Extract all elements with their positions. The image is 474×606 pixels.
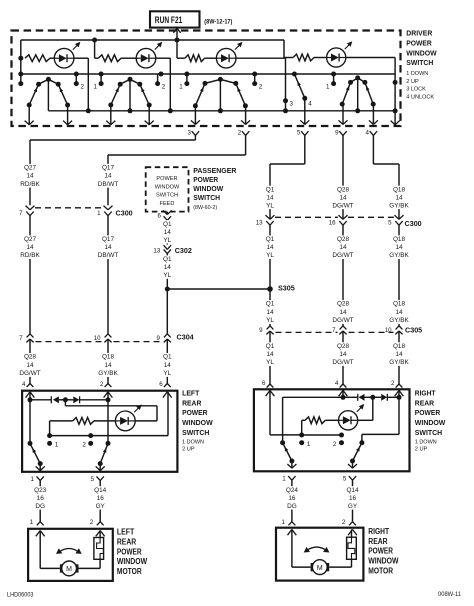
contact 1 right switch: [299, 440, 311, 448]
connector C305: [259, 325, 422, 334]
svg-text:(8W-60-2): (8W-60-2): [193, 205, 217, 211]
svg-text:MOTOR: MOTOR: [368, 566, 393, 575]
left switch blade to output 1: [30, 443, 45, 470]
wire unit1 feed: [18, 40, 23, 86]
passenger power window switch feed box: [146, 167, 189, 211]
svg-text:14: 14: [395, 244, 403, 251]
svg-text:Q27: Q27: [24, 236, 37, 243]
svg-text:14: 14: [104, 362, 112, 369]
label Q17 14 DB/WT upper: [98, 164, 119, 188]
label Q27 14 RD/BK upper: [20, 164, 41, 188]
wire right switch pin4 feed: [341, 390, 346, 399]
svg-text:14: 14: [266, 244, 274, 251]
wire Q18 C300 to C305: [398, 225, 400, 326]
svg-text:2: 2: [100, 381, 104, 388]
diode D2 left switch: [65, 396, 108, 403]
contact 2 stub x76.3: [74, 74, 85, 91]
svg-text:Q1: Q1: [266, 186, 275, 193]
wire LED3 cathode to lock contact: [236, 58, 288, 113]
svg-text:Q24: Q24: [286, 487, 299, 494]
svg-text:1: 1: [179, 84, 183, 91]
lock blade 4 with pin 5 output: [294, 74, 312, 125]
svg-text:2: 2: [90, 519, 94, 526]
svg-text:SWITCH: SWITCH: [156, 193, 178, 199]
svg-text:Q18: Q18: [393, 236, 406, 243]
label Q18 14 GY/BK to right switch: [389, 342, 410, 366]
motor M right rear: [311, 560, 330, 575]
svg-text:DG/WT: DG/WT: [19, 370, 40, 377]
wire right motor feed 1: [292, 529, 311, 567]
svg-text:RD/BK: RD/BK: [20, 181, 40, 188]
switch rocker unit1: [27, 77, 70, 111]
right switch blade to output 5: [348, 443, 362, 469]
contact 2 right switch: [333, 440, 344, 448]
svg-text:RIGHT: RIGHT: [368, 527, 389, 536]
svg-text:POWER: POWER: [406, 38, 432, 47]
svg-text:2 UP: 2 UP: [415, 446, 428, 452]
svg-text:3 LOCK: 3 LOCK: [406, 87, 426, 93]
svg-text:9: 9: [335, 130, 339, 137]
svg-text:REAR: REAR: [368, 537, 387, 546]
svg-text:YL: YL: [163, 370, 171, 377]
svg-text:5: 5: [91, 476, 95, 483]
svg-text:Q18: Q18: [393, 186, 406, 193]
right switch pin 6: [262, 380, 274, 396]
svg-text:WINDOW: WINDOW: [155, 184, 180, 190]
svg-text:13: 13: [153, 248, 160, 255]
wire pin9 to C300-16 (Q28): [342, 135, 344, 219]
label Q28 14 DG/WT to right switch: [332, 342, 353, 366]
driver pin 2: [238, 130, 250, 137]
right rear power window switch box: [254, 389, 410, 471]
switch rocker unit2: [108, 77, 151, 114]
svg-text:PASSENGER: PASSENGER: [193, 166, 237, 175]
svg-text:2: 2: [342, 519, 346, 526]
label Q1 14 YL to right switch: [265, 342, 274, 366]
svg-text:14: 14: [104, 173, 112, 180]
label Q18 14 GY/BK to left switch: [98, 353, 119, 377]
svg-text:Q1: Q1: [266, 301, 275, 308]
resistor unit1: [25, 55, 54, 62]
svg-text:5: 5: [388, 220, 392, 227]
illumination LED unit2: [136, 42, 162, 68]
svg-text:2 UP: 2 UP: [182, 446, 195, 452]
wire passenger feed Q1: [166, 220, 168, 244]
left switch pin 4: [22, 381, 34, 398]
svg-text:LHD06003: LHD06003: [7, 592, 34, 599]
svg-text:Q1: Q1: [163, 354, 172, 361]
left rear power window motor box: [28, 529, 113, 581]
left switch pin 6: [159, 381, 171, 398]
wire Q1 C300 to C305 through S305: [269, 225, 271, 326]
right rear power window motor box: [276, 528, 363, 581]
contact 1 stub x101.1: [93, 74, 103, 91]
svg-text:10: 10: [385, 327, 392, 334]
svg-text:2: 2: [391, 380, 395, 387]
wire Q17 C300 to C304: [107, 216, 109, 334]
wire unit3 feed: [177, 40, 185, 58]
wire right switch pin6 to rail: [270, 390, 302, 435]
svg-text:M: M: [317, 565, 323, 572]
diagram number 008W-11: [438, 591, 462, 598]
label Q14 16 GY left: [94, 486, 107, 510]
svg-text:DB/WT: DB/WT: [98, 181, 119, 188]
svg-text:WINDOW: WINDOW: [117, 557, 148, 566]
svg-text:14: 14: [164, 229, 172, 236]
right switch pin 2: [391, 380, 403, 396]
svg-text:14: 14: [26, 173, 34, 180]
label Q1 14 YL above C302: [163, 220, 172, 244]
svg-text:Q28: Q28: [337, 343, 350, 350]
svg-text:14: 14: [339, 351, 347, 358]
wire unit1 down-arrows: [25, 105, 72, 125]
rotation arrows left motor: [56, 548, 82, 554]
wire pin2 to C300-1 (Q17): [108, 135, 246, 205]
svg-text:WINDOW: WINDOW: [368, 557, 399, 566]
wire C305 to right switch pin 4: [342, 331, 344, 384]
svg-text:DG/WT: DG/WT: [332, 202, 353, 209]
svg-text:REAR: REAR: [415, 398, 435, 407]
svg-text:POWER: POWER: [415, 408, 441, 417]
svg-text:YL: YL: [163, 272, 171, 279]
contact 1 stub x186.9: [179, 74, 189, 91]
svg-text:DG/WT: DG/WT: [332, 317, 353, 324]
connector C302: [153, 245, 191, 255]
driver pin 9: [335, 130, 347, 137]
svg-text:1: 1: [326, 84, 330, 91]
rotation arrows right motor: [304, 547, 330, 553]
svg-text:WINDOW: WINDOW: [415, 418, 446, 427]
wire C302 to splice S305: [165, 254, 170, 334]
svg-text:7: 7: [332, 327, 336, 334]
svg-text:Q17: Q17: [102, 236, 115, 243]
resistor left rear switch: [50, 418, 116, 425]
svg-text:Q14: Q14: [346, 487, 359, 494]
svg-text:SWITCH: SWITCH: [406, 58, 433, 67]
left rear power window switch label: [182, 388, 213, 452]
svg-text:1 DOWN: 1 DOWN: [182, 439, 204, 445]
wire left motor feed 1: [40, 531, 60, 569]
svg-text:14: 14: [26, 244, 34, 251]
contact 1 stub x333.6: [326, 74, 336, 91]
wire driver switch contact bus: [21, 72, 395, 77]
left rear power window switch box: [22, 391, 177, 472]
label Q1 14 YL to left switch: [163, 353, 172, 377]
svg-text:POWER: POWER: [182, 408, 208, 417]
right motor pin 1: [281, 519, 296, 535]
label Q1 14 YL below C302: [163, 255, 172, 279]
wire LED1 cathode to lower bus: [74, 58, 91, 113]
svg-text:LEFT: LEFT: [117, 528, 134, 537]
wire left switch pin2 to pivot: [106, 392, 111, 446]
svg-text:Q28: Q28: [337, 236, 350, 243]
svg-text:14: 14: [164, 362, 172, 369]
wire unit2 down-arrows: [106, 105, 153, 125]
svg-text:6: 6: [158, 213, 162, 220]
svg-text:3: 3: [188, 130, 192, 137]
LED right rear switch: [339, 404, 365, 430]
svg-text:3: 3: [290, 100, 294, 107]
svg-text:7: 7: [19, 210, 23, 217]
svg-text:7: 7: [19, 335, 23, 342]
svg-text:GY/BK: GY/BK: [98, 370, 118, 377]
svg-text:4: 4: [366, 130, 370, 137]
connector C300 left half: [19, 206, 133, 218]
svg-text:14: 14: [395, 309, 403, 316]
contact 2 stub x254.7: [252, 74, 263, 91]
label Q28 14 DG/WT to left switch: [19, 353, 40, 377]
svg-text:SWITCH: SWITCH: [182, 428, 210, 437]
svg-text:POWER: POWER: [156, 176, 177, 182]
svg-text:6: 6: [159, 381, 163, 388]
svg-text:14: 14: [395, 351, 403, 358]
svg-text:4: 4: [22, 381, 26, 388]
svg-text:C302: C302: [175, 246, 192, 255]
svg-text:Q28: Q28: [337, 301, 350, 308]
svg-text:REAR: REAR: [182, 398, 202, 407]
driver power window switch dashed box: [12, 31, 401, 127]
svg-text:YL: YL: [266, 252, 274, 259]
svg-text:16: 16: [37, 495, 45, 502]
svg-text:5: 5: [297, 130, 301, 137]
diagram number LHD06003: [7, 592, 34, 599]
driver pin 4: [366, 130, 378, 137]
svg-text:2: 2: [333, 441, 337, 448]
wire unit4 outputs to border: [339, 104, 378, 124]
label Q27 14 RD/BK lower: [20, 235, 41, 259]
wire left switch contact rail: [50, 433, 168, 438]
left rear power window motor label: [117, 528, 148, 576]
label Q28 14 DG/WT above C300: [332, 186, 353, 210]
wire Q23 16 DG: [39, 481, 41, 522]
label Q24 16 DG: [285, 486, 298, 510]
svg-text:4: 4: [335, 380, 339, 387]
svg-text:SWITCH: SWITCH: [193, 193, 220, 202]
svg-text:POWER: POWER: [368, 547, 393, 556]
wire C304 to left switch pin 4: [29, 339, 31, 384]
diode D1 right switch: [343, 394, 375, 401]
illumination LED unit3: [216, 42, 242, 68]
wire driver switch top bus: [21, 38, 284, 43]
svg-text:DG: DG: [287, 503, 297, 510]
wire RUN F21 feed to driver switch: [173, 28, 180, 42]
left switch output pin 5: [91, 476, 104, 483]
label Q18 14 GY/BK above C300: [389, 186, 410, 210]
left switch output pin 1: [31, 476, 44, 483]
svg-text:GY/BK: GY/BK: [389, 359, 409, 366]
resistor unit3: [185, 55, 217, 62]
svg-text:YL: YL: [266, 202, 274, 209]
svg-text:14: 14: [266, 194, 274, 201]
label Q1 14 YL below S305: [265, 300, 274, 324]
wire Q14 16 GY right: [352, 480, 354, 522]
svg-text:DB/WT: DB/WT: [98, 252, 119, 259]
LED left rear switch: [115, 404, 141, 430]
left switch pin 2: [100, 381, 112, 398]
svg-text:RIGHT: RIGHT: [415, 388, 436, 397]
wire C305 to right switch pin 6: [269, 331, 271, 384]
svg-text:Q1: Q1: [163, 256, 172, 263]
illumination LED unit4: [327, 41, 353, 67]
resistor right rear switch: [302, 417, 339, 424]
wire left motor feed 2: [79, 559, 101, 568]
wire Q27 C300 to C304: [29, 216, 31, 334]
svg-text:Q28: Q28: [24, 354, 37, 361]
label Q1 14 YL above C300: [265, 186, 274, 210]
svg-text:1: 1: [282, 475, 286, 482]
fuse feed RUN F21 box: [150, 11, 200, 27]
label Q28 14 DG/WT below C300: [332, 235, 353, 259]
svg-text:1: 1: [281, 519, 285, 526]
wire resistor elbow to rail: [47, 421, 52, 438]
svg-text:1: 1: [55, 442, 59, 449]
svg-text:1: 1: [30, 519, 34, 526]
svg-text:WINDOW: WINDOW: [182, 418, 213, 427]
illumination LED unit1: [54, 42, 80, 68]
svg-text:DG: DG: [35, 503, 45, 510]
wire pin3 to C300-7 (Q27): [30, 135, 195, 205]
wire Q14 16 GY left: [99, 481, 101, 522]
svg-text:RUN F21: RUN F21: [155, 15, 183, 26]
svg-text:Q1: Q1: [266, 236, 275, 243]
splice S305: [167, 284, 294, 293]
svg-text:1: 1: [31, 476, 35, 483]
wire lower bus corner arrow: [391, 108, 400, 125]
label Q18 14 GY/BK above C305: [389, 300, 410, 324]
wire LED2 cathode to lower bus: [156, 58, 173, 113]
resistor unit4: [293, 54, 327, 61]
right switch blade to output 1: [283, 443, 297, 469]
svg-text:REAR: REAR: [117, 538, 136, 547]
passenger power window switch label: [193, 166, 237, 211]
motor M left rear: [60, 561, 79, 576]
wire driver switch lower bus: [48, 110, 395, 112]
svg-text:FEED: FEED: [160, 201, 175, 207]
label Q17 14 DB/WT lower: [98, 235, 119, 259]
connector C300 right half: [256, 215, 422, 228]
wire Q24 16 DG: [291, 480, 293, 522]
svg-text:5: 5: [343, 475, 347, 482]
svg-text:16: 16: [349, 495, 357, 502]
svg-text:C300: C300: [116, 208, 133, 217]
svg-text:DRIVER: DRIVER: [406, 29, 432, 38]
wire resistor elbow to rail right: [299, 420, 304, 437]
svg-text:Q1: Q1: [266, 343, 275, 350]
svg-text:Q27: Q27: [24, 165, 37, 172]
svg-text:GY/BK: GY/BK: [389, 252, 409, 259]
svg-text:POWER: POWER: [117, 547, 142, 556]
svg-text:M: M: [66, 566, 72, 573]
svg-text:Q28: Q28: [337, 186, 350, 193]
svg-text:YL: YL: [163, 237, 171, 244]
svg-text:Q23: Q23: [34, 487, 47, 494]
label (8W-12-17): [204, 19, 232, 26]
svg-text:16: 16: [288, 495, 296, 502]
right rear power window motor label: [368, 527, 399, 575]
svg-text:Q18: Q18: [102, 354, 115, 361]
label Q18 14 GY/BK below C300: [389, 235, 410, 259]
svg-text:Q18: Q18: [393, 301, 406, 308]
right rear power window switch label: [415, 388, 446, 452]
wire LED4 cathode to contact 2: [346, 58, 398, 111]
label Q28 14 DG/WT above C305: [332, 300, 353, 324]
svg-text:14: 14: [104, 244, 112, 251]
svg-text:Q1: Q1: [163, 221, 172, 228]
svg-text:S305: S305: [278, 284, 295, 293]
svg-text:14: 14: [395, 194, 403, 201]
svg-text:16: 16: [329, 220, 336, 227]
wire unit2 feed: [95, 40, 99, 58]
svg-text:Q17: Q17: [102, 165, 115, 172]
svg-text:1: 1: [97, 210, 101, 217]
label Q14 16 GY right: [346, 486, 359, 510]
svg-text:14: 14: [339, 309, 347, 316]
connector C304: [19, 333, 194, 343]
wire C305 to right switch pin 2: [398, 331, 400, 384]
wire pin4 to C300-5 (Q18): [373, 135, 399, 219]
svg-text:14: 14: [339, 244, 347, 251]
svg-text:SWITCH: SWITCH: [415, 428, 443, 437]
svg-text:2: 2: [81, 84, 85, 91]
svg-text:GY: GY: [96, 503, 106, 510]
driver pin 3: [188, 130, 200, 137]
svg-text:14: 14: [266, 309, 274, 316]
svg-text:16: 16: [97, 495, 105, 502]
wire unit4 feed: [284, 40, 293, 58]
passenger feed pin 6: [158, 210, 172, 220]
svg-text:6: 6: [262, 380, 266, 387]
svg-text:2 UP: 2 UP: [406, 79, 419, 85]
label Q23 16 DG: [34, 486, 47, 510]
wire C304 to left switch pin 6: [166, 339, 168, 384]
diode D1 left switch: [30, 396, 68, 403]
left switch blade to output 5: [96, 443, 108, 470]
svg-text:2: 2: [82, 442, 86, 449]
circuit breaker left motor: [94, 531, 104, 560]
svg-text:WINDOW: WINDOW: [193, 184, 223, 193]
wire left switch pin4 to pivot: [28, 392, 33, 446]
diode D2 right switch: [373, 394, 402, 401]
left motor pin 1: [30, 519, 45, 537]
switch rocker unit4: [340, 75, 376, 113]
svg-text:DG/WT: DG/WT: [332, 252, 353, 259]
svg-text:(8W-12-17): (8W-12-17): [204, 19, 232, 26]
right switch pin 4: [335, 380, 347, 396]
svg-text:14: 14: [26, 362, 34, 369]
svg-text:2: 2: [259, 84, 263, 91]
switch rocker unit3: [193, 77, 248, 113]
svg-text:1: 1: [93, 84, 97, 91]
svg-text:14: 14: [339, 194, 347, 201]
svg-text:1 DOWN: 1 DOWN: [406, 71, 428, 77]
lock contact 3: [290, 100, 294, 107]
wire diode junction to LED loop: [65, 400, 157, 421]
wire pin5 to C300-13 (Q1): [270, 135, 305, 219]
driver pin 5: [297, 130, 309, 137]
svg-text:GY/BK: GY/BK: [389, 202, 409, 209]
svg-text:008W-11: 008W-11: [438, 591, 462, 598]
svg-text:POWER: POWER: [193, 175, 219, 184]
svg-text:WINDOW: WINDOW: [406, 48, 437, 57]
svg-text:1: 1: [307, 441, 311, 448]
contact 2 left switch: [82, 441, 93, 449]
svg-text:DG/WT: DG/WT: [332, 359, 353, 366]
svg-text:LEFT: LEFT: [182, 388, 200, 397]
svg-text:YL: YL: [266, 317, 274, 324]
svg-text:13: 13: [256, 220, 263, 227]
svg-text:Q18: Q18: [393, 343, 406, 350]
svg-text:GY: GY: [348, 503, 358, 510]
